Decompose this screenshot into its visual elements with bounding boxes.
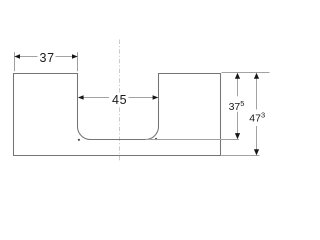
fixing hole dot right xyxy=(155,138,157,140)
dim 45: label mask xyxy=(110,93,128,106)
dim 47.3: bottom arrow xyxy=(254,149,259,155)
dim 37: dimension line xyxy=(20,56,38,58)
dim 47.3: top arrow xyxy=(254,73,259,79)
dim 37: right arrow xyxy=(72,54,78,59)
dim 37: right extension line xyxy=(77,52,79,71)
fixing hole dot left xyxy=(78,139,80,141)
cutout-bottom extension line (for dim 37.5) xyxy=(146,139,240,141)
dim 45: left arrow xyxy=(78,95,84,100)
dim 37.5: top arrow xyxy=(235,73,240,79)
dim 37: left arrow xyxy=(14,54,20,59)
dim 37.5: bottom arrow xyxy=(235,133,240,139)
svg-text:37: 37 xyxy=(40,51,55,65)
dim 47.3: dimension line xyxy=(256,77,258,110)
bottom extension line (for dim 47.3) xyxy=(221,155,260,157)
svg-text:45: 45 xyxy=(112,93,127,107)
countertop outline with U-shaped cutout xyxy=(14,74,221,156)
dim 37.5: dimension line xyxy=(237,77,239,97)
top extension line (right side) xyxy=(222,72,270,74)
dim 45: dimension line xyxy=(83,97,109,99)
centerline (vertical dash-dot axis) xyxy=(119,40,121,161)
dim 37: left extension line xyxy=(14,52,16,71)
dim 45: right arrow xyxy=(153,95,159,100)
